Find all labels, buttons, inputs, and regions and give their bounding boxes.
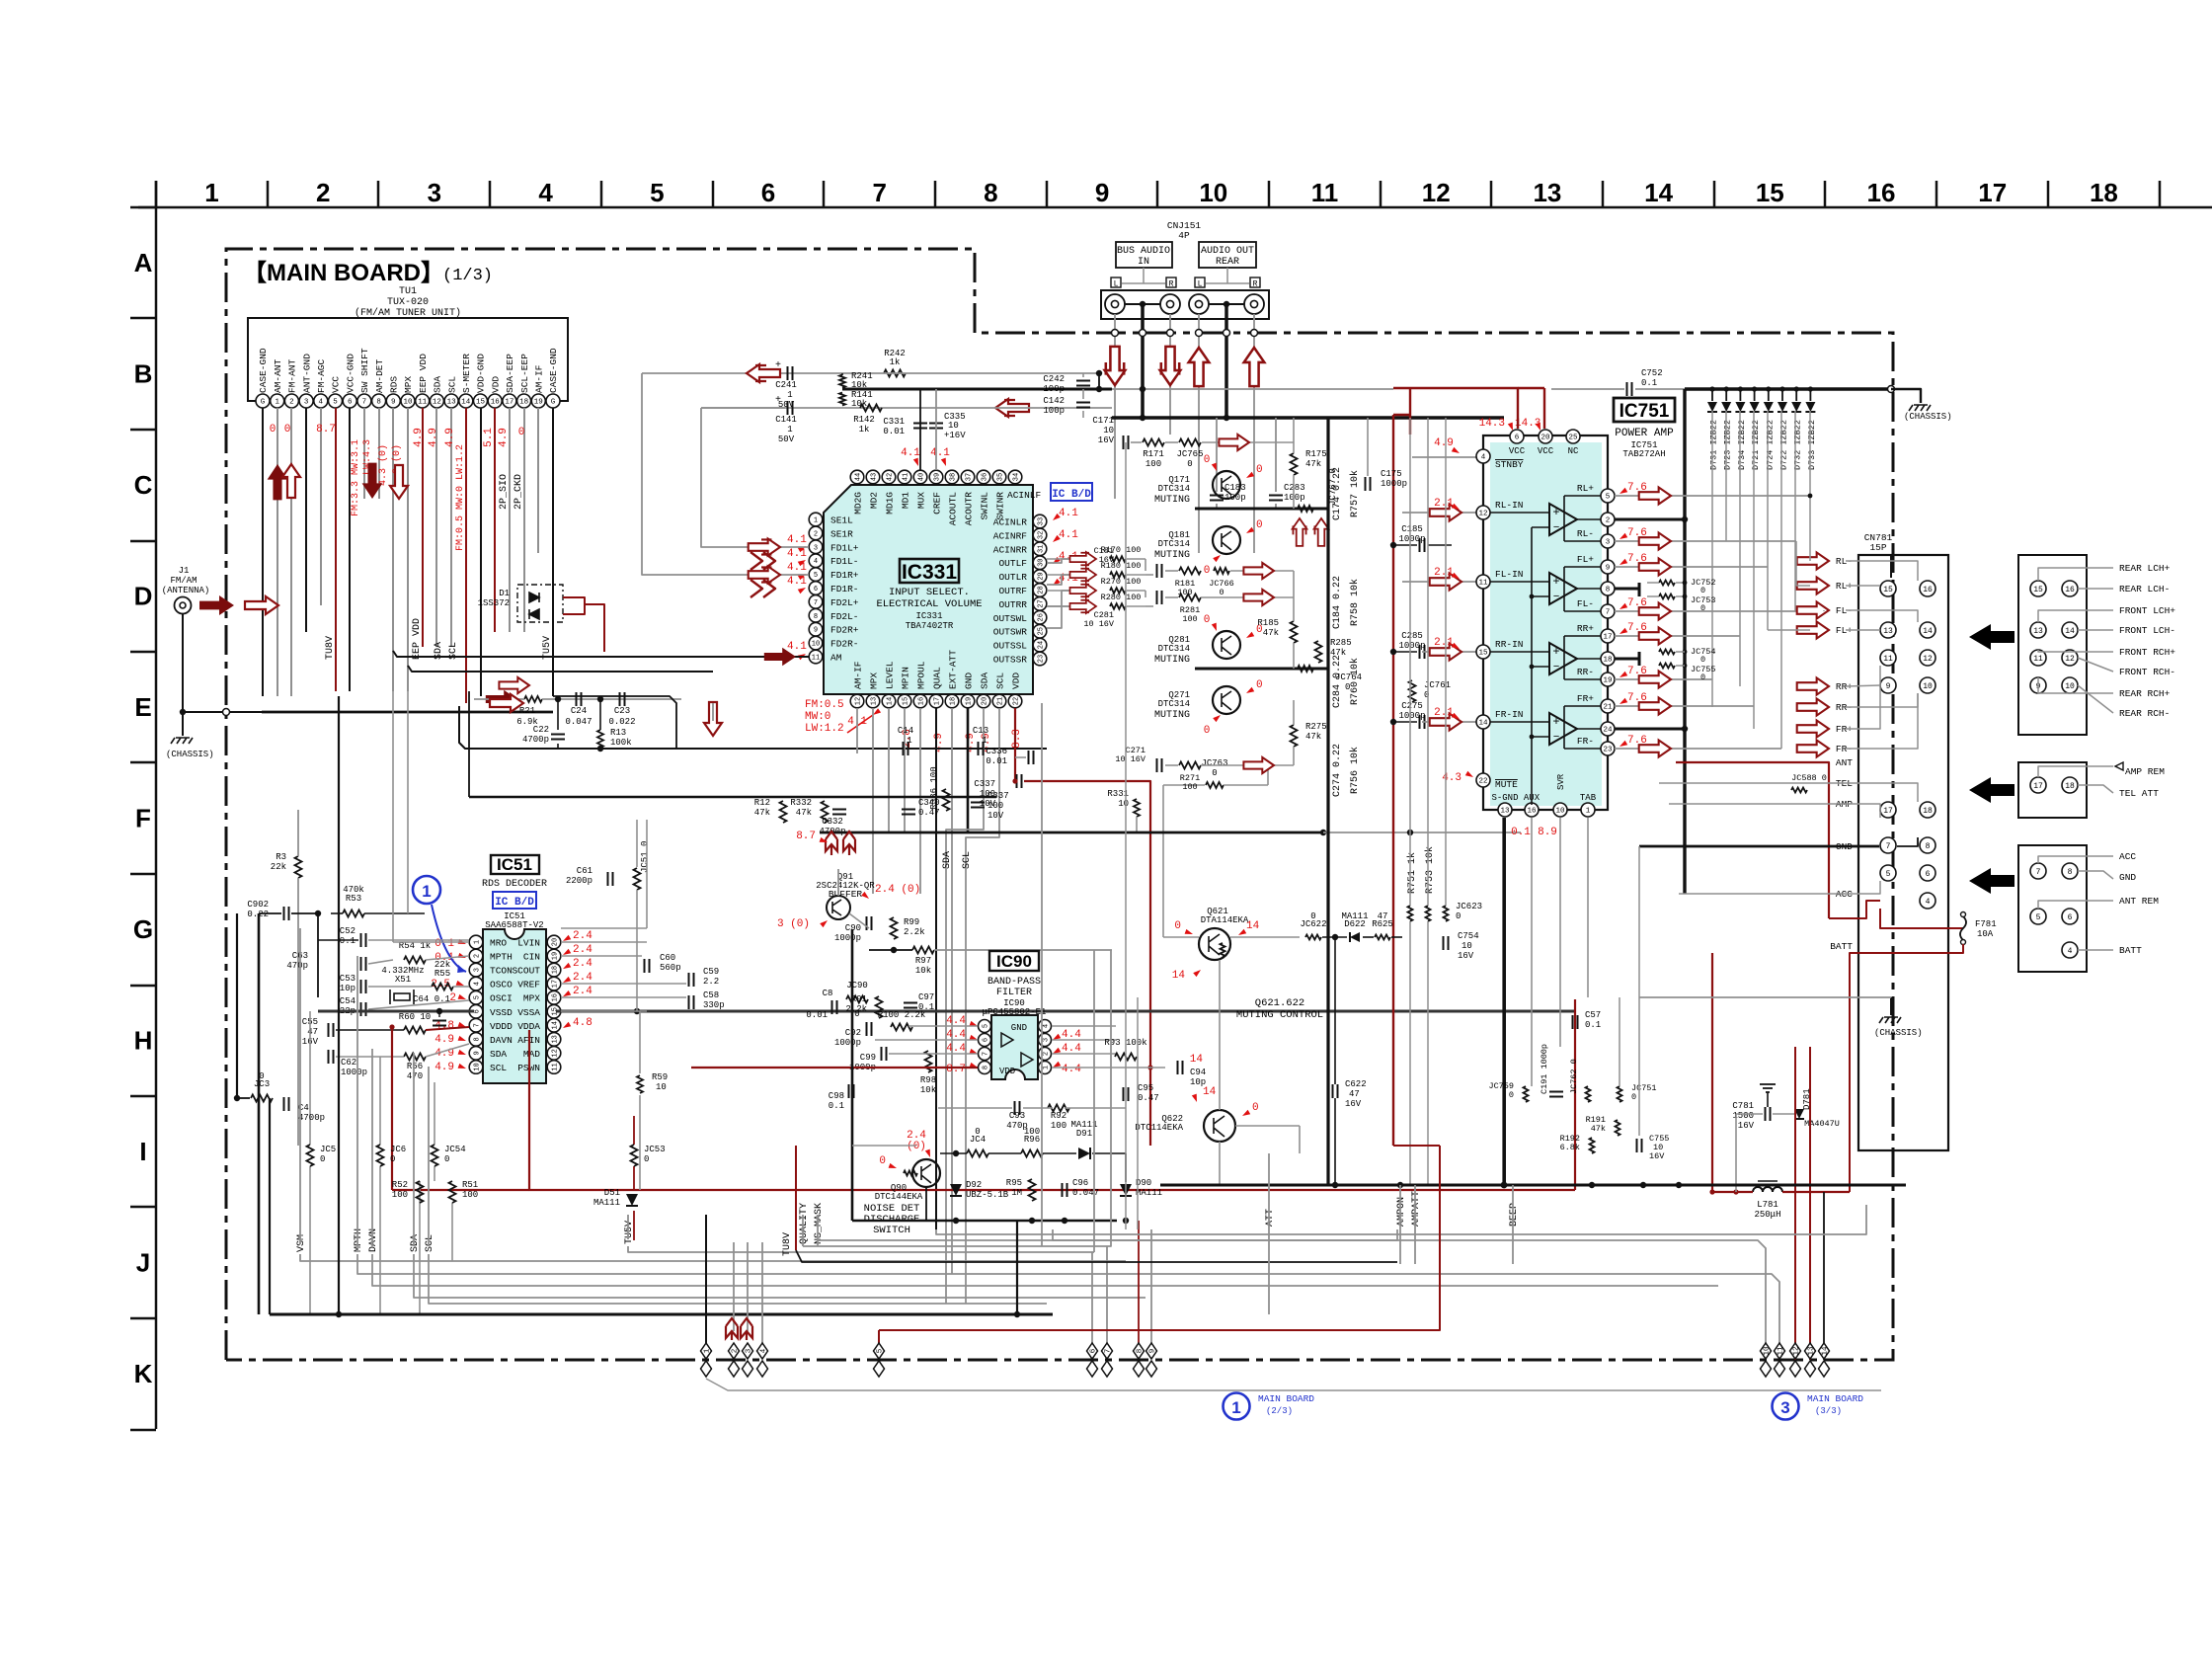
- svg-text:10: 10: [1555, 808, 1565, 816]
- remote box pin 18: [2062, 777, 2078, 793]
- svg-text:FD1L+: FD1L+: [830, 542, 859, 553]
- svg-text:14: 14: [1172, 970, 1186, 982]
- svg-text:D733 IZB22: D733 IZB22: [1807, 420, 1817, 470]
- svg-text:C336: C336: [986, 747, 1007, 756]
- svg-text:IC51: IC51: [497, 855, 532, 874]
- svg-text:MD1G: MD1G: [885, 492, 896, 515]
- svg-text:0.01: 0.01: [806, 1010, 828, 1020]
- resistor R95 1M: [1029, 1179, 1036, 1201]
- resistor R331 10: [1134, 799, 1140, 817]
- svg-text:D734 IZB22: D734 IZB22: [1737, 420, 1747, 470]
- wires to IC751 inputs with arrows: [1422, 512, 1477, 514]
- svg-text:0.022: 0.022: [608, 717, 635, 727]
- nested wire DAVN: [372, 1254, 1718, 1286]
- CN781 pin 13: [1880, 622, 1896, 638]
- svg-text:4.1: 4.1: [787, 641, 807, 653]
- maroon VCC wiring top of IC751: [1393, 414, 1410, 416]
- svg-text:R: R: [1253, 280, 1258, 289]
- IC90 left pin 6: [979, 1034, 991, 1047]
- svg-text:C53: C53: [340, 974, 355, 984]
- svg-text:19: 19: [552, 952, 560, 960]
- svg-text:0: 0: [444, 1154, 449, 1164]
- svg-text:4.9: 4.9: [428, 428, 439, 447]
- svg-text:4.4: 4.4: [1062, 1064, 1081, 1075]
- row F component cluster R12 R332 C332 C340 R336 C337: [780, 801, 787, 823]
- svg-text:MPIN: MPIN: [901, 667, 911, 689]
- svg-text:−: −: [1553, 592, 1560, 603]
- svg-text:4.1: 4.1: [1059, 508, 1078, 519]
- svg-text:REAR: REAR: [1216, 257, 1239, 268]
- svg-text:(2/3): (2/3): [1266, 1406, 1293, 1416]
- svg-text:C283: C283: [1284, 483, 1305, 493]
- svg-text:14: 14: [1203, 1086, 1217, 1098]
- maroon double down arrow bus audio R: [1160, 347, 1181, 385]
- svg-text:R98: R98: [920, 1075, 936, 1085]
- IC331 top pin 42 MD1G: [882, 470, 896, 484]
- wire tuner pin drop x=531: [523, 408, 525, 632]
- muting transistor Q271 DTC314: [1213, 686, 1240, 714]
- svg-text:20: 20: [982, 697, 989, 705]
- wires from label boxes to LR tags: [1143, 268, 1145, 283]
- diode D733 IZB22: [1809, 389, 1811, 401]
- svg-text:C24: C24: [571, 706, 587, 716]
- svg-text:MW:0: MW:0: [805, 711, 830, 723]
- svg-text:BEEP: BEEP: [1509, 1203, 1520, 1227]
- svg-text:6: 6: [1926, 870, 1931, 879]
- svg-text:1000p: 1000p: [1381, 479, 1407, 489]
- grid ruler top line: [138, 206, 2212, 209]
- svg-text:DTC314: DTC314: [1158, 644, 1190, 654]
- svg-text:19: 19: [1603, 677, 1612, 685]
- svg-text:18: 18: [1603, 657, 1612, 665]
- svg-text:L: L: [1198, 280, 1203, 289]
- svg-text:10: 10: [474, 1063, 482, 1070]
- svg-text:4: 4: [814, 558, 818, 566]
- input row C281: [1157, 591, 1162, 604]
- svg-text:+: +: [1552, 506, 1559, 519]
- external remote connector box: [2018, 762, 2087, 818]
- wires IC90 left: [908, 1025, 978, 1027]
- svg-text:SDA: SDA: [980, 673, 990, 689]
- svg-text:100: 100: [1024, 1127, 1040, 1137]
- maroon down arrow on AM-DET wire: [362, 463, 383, 499]
- wire tuner pin drop x=442: [435, 408, 437, 647]
- svg-text:0: 0: [1187, 459, 1192, 469]
- svg-text:C97: C97: [918, 992, 934, 1002]
- svg-text:C902: C902: [247, 900, 269, 910]
- IC331 right pin 29 OUTLR: [1033, 570, 1047, 584]
- svg-text:J1: J1: [179, 566, 190, 576]
- op-amp IC331 cyan body: [824, 485, 1033, 694]
- svg-text:16V: 16V: [1738, 1121, 1755, 1131]
- svg-text:4.332MHz: 4.332MHz: [381, 966, 424, 976]
- svg-text:C781: C781: [1732, 1101, 1754, 1111]
- svg-text:5: 5: [1886, 870, 1891, 879]
- capacitor C98 0.1: [849, 1084, 854, 1098]
- svg-text:IN: IN: [1138, 257, 1149, 268]
- IC331 left pin 11 AM: [809, 650, 823, 664]
- svg-text:TAB272AH: TAB272AH: [1622, 449, 1665, 459]
- svg-text:(CHASSIS): (CHASSIS): [1904, 412, 1952, 422]
- svg-text:SWITCH: SWITCH: [873, 1225, 910, 1236]
- IC331 right pin 27 OUTRR: [1033, 597, 1047, 611]
- resistor R13 100k: [597, 730, 603, 748]
- IC751 top pins: [1510, 430, 1524, 443]
- svg-text:OUTSWR: OUTSWR: [993, 627, 1028, 638]
- svg-text:ANT: ANT: [1836, 757, 1853, 768]
- svg-text:VCC-GND: VCC-GND: [345, 354, 355, 393]
- svg-text:FRONT RCH-: FRONT RCH-: [2119, 667, 2175, 677]
- nested rounded wires from mid labels: [803, 1229, 1111, 1246]
- wire tuner pin drop x=398: [392, 408, 394, 691]
- IC331 bottom pin 16 MPOUL: [913, 694, 927, 708]
- svg-text:−: −: [1553, 662, 1560, 673]
- svg-text:16V: 16V: [1345, 1099, 1362, 1109]
- border pass pin 2: [729, 1343, 740, 1359]
- svg-text:8.9: 8.9: [1538, 827, 1557, 838]
- maroon vertical bus x=1411: [1392, 415, 1394, 1146]
- svg-text:SDA: SDA: [942, 851, 953, 869]
- svg-text:REAR RCH+: REAR RCH+: [2119, 688, 2171, 699]
- svg-text:R756 10k: R756 10k: [1349, 747, 1361, 794]
- IC51 left pin 3 TCON: [469, 963, 483, 977]
- svg-text:R270 100: R270 100: [1101, 577, 1142, 587]
- svg-text:0.1: 0.1: [1585, 1020, 1601, 1030]
- open arrows into CN781: [1797, 552, 1829, 569]
- svg-text:10 16V: 10 16V: [1083, 619, 1115, 629]
- svg-text:EEP VDD: EEP VDD: [418, 354, 429, 393]
- svg-text:C13: C13: [973, 726, 988, 736]
- IC331 right pin 28 OUTRF: [1033, 584, 1047, 597]
- IC331 top pin 37 ACOUTR: [961, 470, 975, 484]
- svg-text:18: 18: [2090, 178, 2118, 207]
- CN781 pin 12: [1920, 650, 1935, 666]
- svg-text:16V: 16V: [1458, 951, 1474, 961]
- svg-text:2P_CKD: 2P_CKD: [513, 474, 524, 510]
- svg-text:2200p: 2200p: [566, 876, 592, 886]
- svg-text:C96: C96: [1072, 1178, 1088, 1188]
- svg-text:MPOUL: MPOUL: [916, 661, 927, 689]
- svg-text:JC588 0: JC588 0: [1791, 773, 1827, 783]
- svg-text:26: 26: [1038, 613, 1046, 621]
- svg-text:LEVEL: LEVEL: [885, 661, 896, 689]
- op-amps inside IC751: [1549, 504, 1577, 535]
- svg-text:10: 10: [1764, 1346, 1772, 1356]
- svg-text:JC765: JC765: [1176, 449, 1203, 459]
- svg-text:JC54: JC54: [444, 1145, 466, 1154]
- red slanted pointer line: [847, 715, 873, 733]
- svg-text:OSCO: OSCO: [490, 980, 513, 990]
- thick wires pins 2 24: [1615, 518, 1685, 521]
- connector CN781 15P box: [1858, 555, 1948, 1150]
- svg-text:SCL: SCL: [446, 376, 457, 393]
- svg-text:0.1: 0.1: [1511, 827, 1531, 838]
- capacitor C185 1000p: [1420, 538, 1425, 552]
- svg-text:0: 0: [1204, 454, 1211, 466]
- svg-text:L: L: [1114, 280, 1119, 289]
- svg-text:0: 0: [644, 1154, 649, 1164]
- svg-text:VDD-GND: VDD-GND: [476, 354, 487, 393]
- svg-text:E: E: [134, 692, 151, 722]
- svg-text:FD2R+: FD2R+: [830, 625, 859, 636]
- CN781 pin 17: [1880, 802, 1896, 818]
- svg-text:100: 100: [462, 1190, 478, 1200]
- svg-text:0: 0: [1631, 1092, 1636, 1102]
- svg-text:C59: C59: [703, 967, 719, 977]
- svg-text:C62: C62: [341, 1058, 356, 1068]
- svg-text:5: 5: [1606, 494, 1611, 502]
- svg-text:0: 0: [975, 1127, 980, 1137]
- maroon wire row 8.7 to IC90 VDD: [691, 1067, 978, 1069]
- svg-text:SW SHIFT: SW SHIFT: [359, 348, 370, 393]
- svg-text:10: 10: [403, 399, 413, 407]
- svg-text:1: 1: [1586, 808, 1591, 816]
- svg-text:6: 6: [761, 178, 775, 207]
- svg-text:DTC314: DTC314: [1158, 539, 1190, 549]
- svg-text:(1/3): (1/3): [442, 267, 493, 285]
- svg-text:VREF: VREF: [517, 980, 540, 990]
- svg-text:FM-ANT: FM-ANT: [287, 358, 298, 393]
- svg-text:2: 2: [474, 954, 482, 958]
- svg-text:3: 3: [1606, 539, 1611, 547]
- svg-text:RR-IN: RR-IN: [1495, 639, 1524, 650]
- IC B/D blue tag near IC331: [1051, 483, 1092, 501]
- power box pin 8: [2062, 863, 2078, 879]
- svg-text:C64 0.1: C64 0.1: [413, 994, 450, 1004]
- svg-text:(ANTENNA): (ANTENNA): [162, 586, 210, 595]
- svg-text:30: 30: [1038, 558, 1046, 566]
- svg-text:GND: GND: [2119, 872, 2136, 883]
- svg-text:3: 3: [1780, 1398, 1789, 1417]
- svg-text:47k: 47k: [1305, 732, 1321, 742]
- diode D723 IZB22: [1725, 389, 1727, 401]
- capacitor C59 2.2: [689, 973, 694, 987]
- IC331 bottom pin 17 QUAL: [929, 694, 943, 708]
- svg-text:C622: C622: [1345, 1079, 1367, 1089]
- diode row drop wires: [1711, 411, 1713, 679]
- svg-text:16: 16: [1923, 586, 1933, 594]
- svg-text:GND: GND: [964, 673, 975, 689]
- svg-text:0.47: 0.47: [1138, 1093, 1159, 1103]
- svg-text:(0): (0): [907, 1141, 926, 1152]
- svg-text:S-GND: S-GND: [1491, 793, 1518, 803]
- svg-text:FM-AGC: FM-AGC: [316, 358, 327, 393]
- svg-text:R52: R52: [392, 1180, 408, 1190]
- svg-text:MPX: MPX: [523, 993, 540, 1004]
- svg-text:2: 2: [316, 178, 330, 207]
- svg-text:18: 18: [1923, 807, 1933, 816]
- svg-text:SWINL: SWINL: [980, 492, 990, 520]
- svg-text:0.01: 0.01: [883, 427, 905, 436]
- svg-text:R142: R142: [853, 415, 875, 425]
- svg-text:RL-IN: RL-IN: [1495, 500, 1524, 511]
- svg-text:OUTSSR: OUTSSR: [993, 655, 1028, 666]
- svg-text:8.3: 8.3: [1011, 729, 1023, 749]
- svg-text:VDDD: VDDD: [490, 1021, 513, 1032]
- svg-text:C185: C185: [1401, 524, 1423, 534]
- svg-text:7: 7: [1105, 1349, 1113, 1354]
- IC331 left pin 2 SE1R: [809, 526, 823, 540]
- svg-text:I: I: [139, 1137, 146, 1166]
- svg-text:ACINLR: ACINLR: [993, 517, 1028, 528]
- svg-text:FD2R-: FD2R-: [830, 639, 859, 650]
- svg-text:2.2: 2.2: [703, 977, 719, 987]
- resistor R100 2.2k: [891, 1024, 912, 1031]
- svg-text:21: 21: [997, 697, 1005, 705]
- jumper JC588 0: [1791, 788, 1807, 793]
- capacitor C14: [904, 742, 908, 755]
- svg-text:FD1R-: FD1R-: [830, 584, 859, 594]
- svg-text:0: 0: [1700, 603, 1705, 613]
- svg-text:MD2: MD2: [869, 492, 880, 509]
- svg-text:TU5V: TU5V: [624, 1221, 635, 1244]
- IC331 left pin 5 FD1R+: [809, 568, 823, 582]
- svg-text:1: 1: [982, 736, 987, 746]
- svg-text:MPX: MPX: [403, 376, 414, 393]
- power box wires: [2038, 856, 2113, 863]
- svg-text:BAND-PASS: BAND-PASS: [987, 977, 1041, 988]
- wire left vertical x=262 thick: [258, 913, 261, 1314]
- jumper JC51 0: [634, 868, 641, 890]
- svg-text:−: −: [1553, 732, 1560, 744]
- capacitor C90 1000p: [867, 916, 872, 930]
- svg-text:1: 1: [1231, 1398, 1240, 1417]
- svg-text:4700p: 4700p: [298, 1113, 325, 1123]
- svg-text:ACOUTR: ACOUTR: [964, 492, 975, 526]
- svg-text:50V: 50V: [778, 435, 795, 444]
- IC331 bottom pin drop wires: [856, 708, 858, 753]
- svg-text:4.1: 4.1: [1059, 529, 1078, 541]
- svg-text:0: 0: [1252, 1102, 1259, 1114]
- svg-text:VCC: VCC: [1509, 446, 1526, 456]
- diode D734 IZB22: [1739, 389, 1741, 401]
- maroon wire into L781: [1712, 953, 1753, 1192]
- blue circled 1 main board 2/3: [1224, 1393, 1250, 1420]
- svg-text:10: 10: [1199, 178, 1227, 207]
- svg-text:C184 0.22: C184 0.22: [1332, 576, 1343, 629]
- border pass pin 14: [1819, 1343, 1830, 1359]
- svg-text:7: 7: [1886, 842, 1891, 851]
- blue pointer curve: [432, 905, 466, 972]
- svg-text:12: 12: [2065, 655, 2075, 664]
- svg-text:TEL ATT: TEL ATT: [2119, 788, 2159, 799]
- svg-text:10V: 10V: [987, 811, 1004, 821]
- svg-text:4.1: 4.1: [787, 548, 807, 560]
- svg-text:+: +: [1552, 715, 1559, 729]
- border pass pin 10: [1761, 1343, 1772, 1359]
- svg-text:19: 19: [966, 697, 974, 705]
- svg-text:10: 10: [1923, 682, 1933, 691]
- svg-text:(CHASSIS): (CHASSIS): [1874, 1028, 1923, 1038]
- svg-text:FR-IN: FR-IN: [1495, 709, 1524, 720]
- svg-text:14: 14: [1923, 627, 1933, 636]
- svg-text:R92: R92: [1051, 1111, 1066, 1121]
- IC90 right pin 3: [1039, 1034, 1052, 1047]
- svg-text:47k: 47k: [754, 808, 770, 818]
- diode D722 IZB22: [1781, 389, 1783, 401]
- svg-text:AMPATT: AMPATT: [1411, 1191, 1422, 1227]
- svg-text:12: 12: [433, 399, 441, 407]
- wire TU8V vertical maroon: [795, 1146, 797, 1250]
- svg-text:5: 5: [333, 399, 338, 407]
- AUDIO OUT REAR box: [1199, 242, 1256, 268]
- svg-text:0: 0: [879, 1155, 886, 1167]
- svg-text:9: 9: [1149, 1349, 1157, 1354]
- svg-text:SE1L: SE1L: [830, 515, 853, 526]
- svg-text:R60 10: R60 10: [399, 1012, 431, 1022]
- svg-text:C331: C331: [883, 417, 905, 427]
- svg-text:1000p: 1000p: [834, 1038, 861, 1048]
- svg-text:8: 8: [1606, 587, 1611, 594]
- svg-text:J: J: [136, 1248, 150, 1278]
- svg-text:0: 0: [1456, 911, 1461, 921]
- svg-text:14: 14: [2065, 627, 2075, 636]
- svg-text:0: 0: [284, 424, 291, 436]
- resistor R142 1k: [860, 405, 882, 412]
- svg-text:6.8k: 6.8k: [1560, 1143, 1580, 1152]
- speaker box pin 15: [2030, 581, 2046, 596]
- IC51 left pin 10 SCL: [469, 1061, 483, 1074]
- svg-text:R285: R285: [1330, 638, 1352, 648]
- svg-text:R275: R275: [1305, 722, 1327, 732]
- svg-text:TCON: TCON: [490, 966, 513, 977]
- IC331 output wires right: [1047, 559, 1084, 563]
- IC331 top pin 36 SWINL: [977, 470, 990, 484]
- IC331 right pin 30 OUTLF: [1033, 556, 1047, 570]
- wire tuner pin drop x=428: [422, 408, 424, 647]
- svg-text:+: +: [775, 360, 781, 371]
- svg-text:OUTLR: OUTLR: [998, 572, 1027, 583]
- svg-text:18: 18: [950, 697, 958, 705]
- svg-text:28: 28: [1038, 586, 1046, 594]
- svg-text:16V: 16V: [1098, 436, 1115, 445]
- black arrow to remote box: [1969, 777, 2014, 803]
- CN781 pin 14: [1920, 622, 1935, 638]
- svg-text:MPTH: MPTH: [490, 952, 513, 963]
- svg-text:C22: C22: [533, 725, 549, 735]
- svg-text:FL-: FL-: [1577, 598, 1594, 609]
- svg-text:38: 38: [950, 473, 958, 481]
- svg-text:FD2L-: FD2L-: [830, 611, 859, 622]
- IC331 bottom pin 20 SDA: [977, 694, 990, 708]
- thick ground bus row H right: [556, 1010, 1575, 1013]
- svg-text:100k: 100k: [610, 738, 632, 748]
- svg-text:8: 8: [474, 1037, 482, 1041]
- wire tuner pin drop x=354: [349, 408, 351, 691]
- svg-text:43: 43: [871, 473, 879, 481]
- svg-text:11: 11: [1311, 178, 1339, 207]
- IC90 right pin 1: [1039, 1062, 1052, 1074]
- capacitor C52 0.1: [361, 933, 366, 947]
- wire tuner pin drop x=516: [509, 408, 511, 632]
- svg-text:RR-: RR-: [1577, 667, 1594, 677]
- wire tuner pin drop x=325: [320, 408, 322, 605]
- capacitor C57 0.1: [1573, 1015, 1578, 1029]
- bottom-left jumper column wires: [309, 1011, 311, 1145]
- red double chevron arrows bottom: [726, 1318, 738, 1340]
- IC51 left pin 1 MRO: [469, 935, 483, 949]
- wire tuner pin drop x=457: [450, 408, 452, 647]
- svg-text:8.7: 8.7: [796, 831, 816, 842]
- power box pin 4: [2062, 942, 2078, 958]
- svg-text:DTA114EKA: DTA114EKA: [1201, 915, 1249, 925]
- svg-text:13: 13: [1500, 808, 1510, 816]
- muting transistor Q181 DTC314: [1213, 526, 1240, 554]
- wire row 413: [701, 407, 928, 409]
- IC331 bottom pin 22 VDD: [1008, 694, 1022, 708]
- svg-text:0: 0: [518, 427, 525, 438]
- IC51 right pin 17 VREF: [547, 977, 561, 990]
